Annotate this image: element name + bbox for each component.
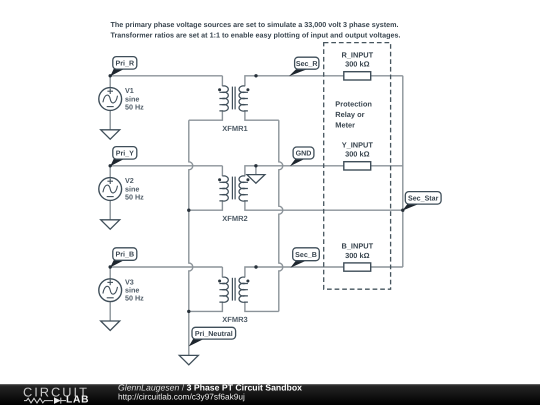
svg-text:GND: GND	[296, 150, 312, 158]
svg-text:B_INPUT: B_INPUT	[341, 242, 373, 251]
svg-text:The primary phase voltage sour: The primary phase voltage sources are se…	[111, 20, 399, 29]
svg-text:50 Hz: 50 Hz	[125, 102, 144, 111]
svg-text:50 Hz: 50 Hz	[125, 192, 144, 201]
svg-text:Protection: Protection	[335, 99, 372, 108]
svg-text:Relay or: Relay or	[335, 110, 364, 119]
svg-text:LAB: LAB	[66, 395, 89, 405]
svg-text:Pri_Neutral: Pri_Neutral	[195, 330, 233, 338]
svg-text:300 kΩ: 300 kΩ	[345, 60, 369, 69]
svg-text:Pri_R: Pri_R	[116, 59, 135, 67]
svg-text:Sec_Star: Sec_Star	[408, 194, 439, 202]
svg-text:50 Hz: 50 Hz	[125, 294, 144, 303]
svg-text:XFMR3: XFMR3	[222, 315, 247, 324]
svg-text:XFMR2: XFMR2	[222, 214, 247, 223]
svg-text:Transformer ratios are set at: Transformer ratios are set at 1:1 to ena…	[111, 31, 401, 40]
svg-text:Meter: Meter	[335, 121, 355, 130]
svg-text:XFMR1: XFMR1	[222, 124, 247, 133]
svg-text:300 kΩ: 300 kΩ	[345, 251, 369, 260]
svg-text:Pri_B: Pri_B	[116, 251, 135, 259]
svg-text:R_INPUT: R_INPUT	[341, 51, 373, 60]
svg-text:Sec_R: Sec_R	[296, 60, 318, 68]
svg-text:Y_INPUT: Y_INPUT	[342, 141, 374, 150]
svg-text:http://circuitlab.com/c3y97sf6: http://circuitlab.com/c3y97sf6ak9uj	[118, 392, 245, 402]
svg-text:Sec_B: Sec_B	[295, 251, 317, 259]
svg-text:Pri_Y: Pri_Y	[116, 149, 134, 157]
svg-text:300 kΩ: 300 kΩ	[345, 150, 369, 159]
